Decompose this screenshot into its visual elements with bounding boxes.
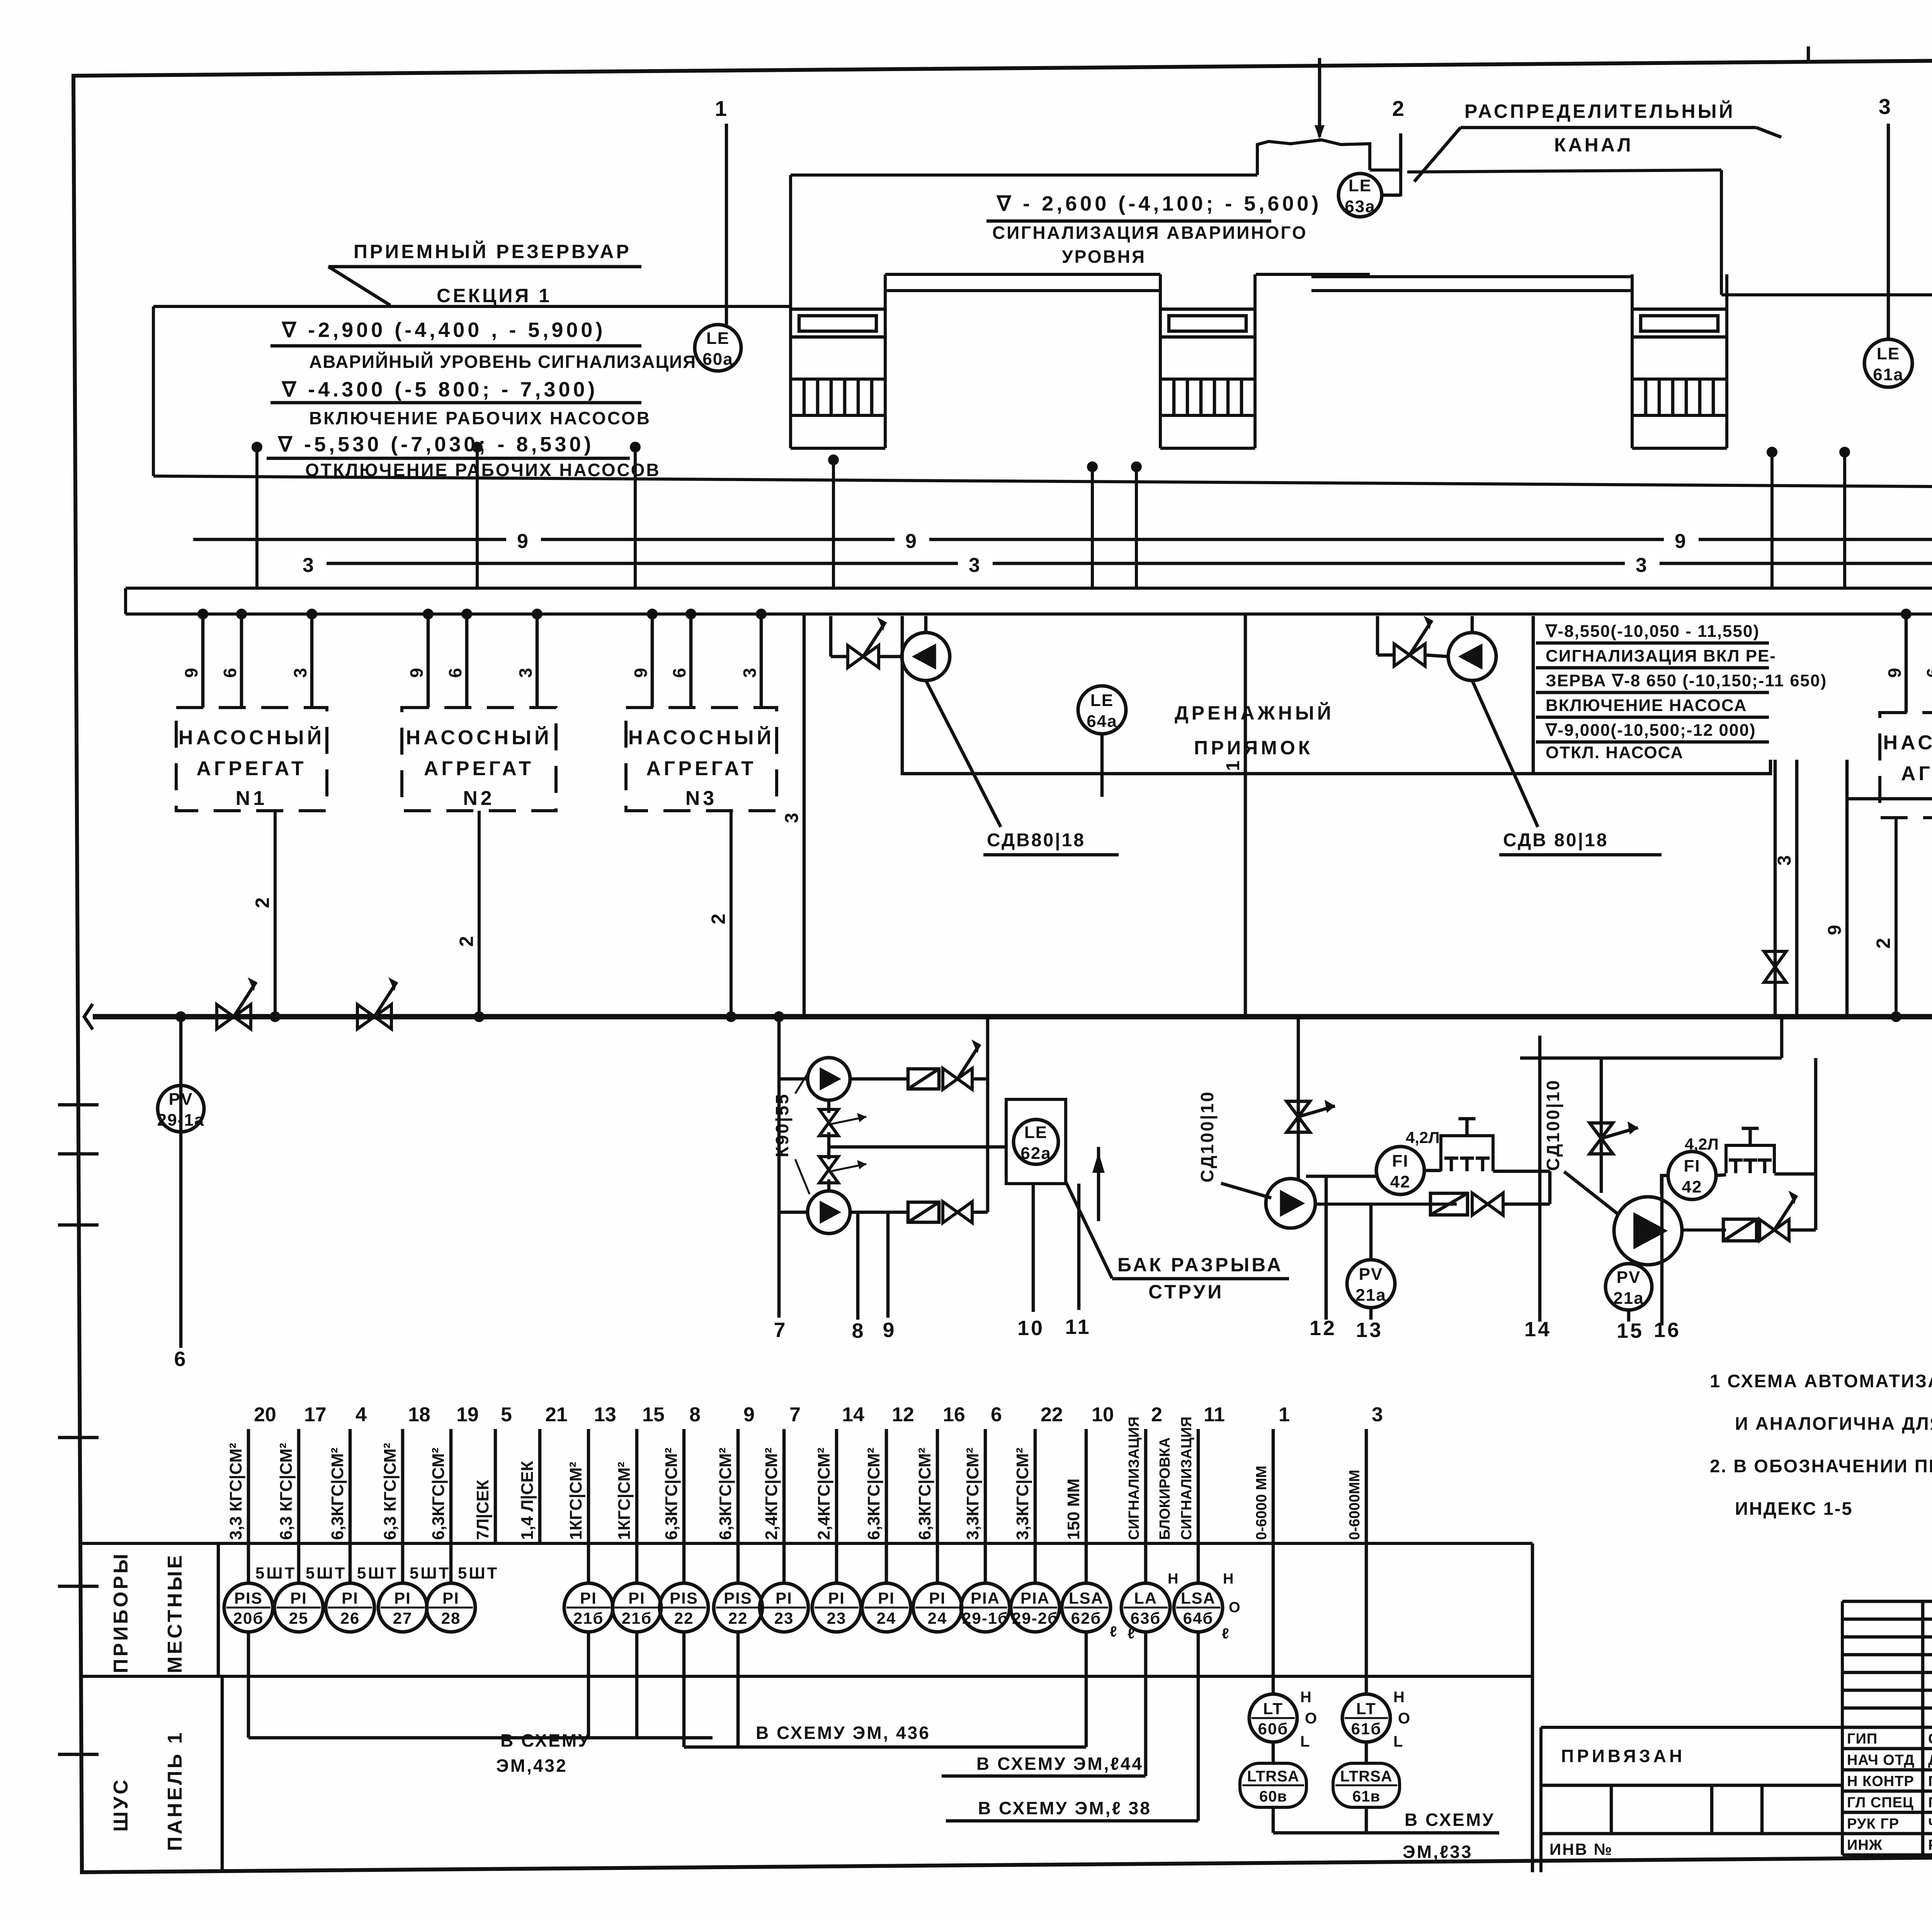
svg-text:63б: 63б: [1131, 1609, 1161, 1627]
svg-text:13: 13: [1356, 1318, 1383, 1342]
svg-text:LE: LE: [1024, 1123, 1048, 1142]
svg-text:21б: 21б: [573, 1609, 604, 1627]
svg-text:LSA: LSA: [1181, 1589, 1216, 1607]
svg-text:PI: PI: [342, 1589, 359, 1607]
svg-text:LE: LE: [1349, 176, 1372, 195]
svg-text:ПРИЯМОК: ПРИЯМОК: [1194, 737, 1313, 759]
svg-text:20: 20: [254, 1404, 276, 1426]
svg-text:АГРЕГАТ: АГРЕГАТ: [424, 757, 534, 780]
svg-text:LT: LT: [1356, 1700, 1376, 1718]
svg-text:6,3КГС|СМ²: 6,3КГС|СМ²: [864, 1448, 884, 1540]
svg-text:2: 2: [456, 934, 477, 947]
svg-text:PIS: PIS: [234, 1589, 263, 1607]
svg-text:61a: 61a: [1873, 365, 1903, 384]
svg-text:12: 12: [892, 1404, 914, 1426]
svg-text:3: 3: [740, 666, 760, 678]
svg-text:PI: PI: [290, 1589, 307, 1607]
svg-text:ИНВ №: ИНВ №: [1549, 1840, 1613, 1858]
svg-text:O: O: [1305, 1710, 1319, 1727]
svg-text:14: 14: [1524, 1318, 1551, 1341]
svg-text:НАСОСНЫЙ: НАСОСНЫЙ: [628, 726, 774, 749]
svg-text:СЛЕГИН: СЛЕГИН: [1928, 1731, 1932, 1747]
svg-text:БАК РАЗРЫВА: БАК РАЗРЫВА: [1117, 1254, 1283, 1276]
svg-text:ЭМ,432: ЭМ,432: [496, 1756, 568, 1776]
svg-text:БЛОКИРОВКА: БЛОКИРОВКА: [1157, 1437, 1173, 1540]
svg-text:PI: PI: [878, 1589, 895, 1607]
svg-text:N1: N1: [236, 787, 267, 810]
svg-text:PI: PI: [442, 1589, 459, 1607]
svg-text:L: L: [1300, 1733, 1311, 1750]
svg-text:23: 23: [774, 1609, 794, 1627]
svg-text:НАСОСНЫЙ: НАСОСНЫЙ: [406, 726, 552, 749]
svg-text:PV: PV: [1617, 1268, 1641, 1287]
svg-text:1КГС|СМ²: 1КГС|СМ²: [566, 1462, 586, 1540]
svg-text:N3: N3: [685, 787, 717, 810]
svg-text:FI: FI: [1684, 1157, 1700, 1176]
svg-text:4: 4: [355, 1404, 367, 1426]
svg-text:ГИП: ГИП: [1847, 1731, 1878, 1747]
svg-text:24: 24: [877, 1609, 896, 1627]
svg-text:УРОВНЯ: УРОВНЯ: [1062, 247, 1146, 267]
svg-text:8: 8: [689, 1404, 701, 1426]
svg-text:6: 6: [991, 1404, 1002, 1426]
svg-text:ШУС: ШУС: [110, 1778, 132, 1832]
svg-text:9: 9: [1825, 923, 1845, 935]
svg-text:64a: 64a: [1087, 712, 1117, 731]
svg-text:2: 2: [1151, 1404, 1162, 1426]
svg-text:3: 3: [290, 666, 310, 678]
svg-text:16: 16: [943, 1404, 965, 1426]
svg-text:60б: 60б: [1258, 1720, 1289, 1738]
svg-text:2: 2: [707, 912, 729, 924]
svg-text:6,3КГС|СМ²: 6,3КГС|СМ²: [328, 1448, 347, 1540]
svg-text:2,4КГС|СМ²: 2,4КГС|СМ²: [815, 1448, 834, 1540]
svg-text:9: 9: [517, 530, 530, 553]
svg-text:6: 6: [445, 666, 465, 678]
svg-text:3: 3: [1879, 94, 1893, 119]
svg-text:∇-9,000(-10,500;-12 000): ∇-9,000(-10,500;-12 000): [1545, 721, 1756, 740]
svg-text:ℓ: ℓ: [1128, 1626, 1137, 1642]
svg-text:3: 3: [969, 554, 982, 577]
svg-text:0-6000ММ: 0-6000ММ: [1347, 1470, 1363, 1540]
svg-text:В СХЕМУ ЭМ, 436: В СХЕМУ ЭМ, 436: [756, 1723, 930, 1743]
svg-text:∇ -4.300 (-5 800; - 7,300): ∇ -4.300 (-5 800; - 7,300): [281, 378, 598, 401]
svg-text:11: 11: [1065, 1315, 1091, 1339]
svg-text:LTRSA: LTRSA: [1340, 1768, 1392, 1785]
svg-text:3: 3: [303, 554, 316, 577]
svg-text:ЧУБОВА: ЧУБОВА: [1928, 1816, 1932, 1832]
svg-text:H: H: [1300, 1689, 1313, 1706]
svg-text:10: 10: [1092, 1404, 1114, 1426]
svg-text:61в: 61в: [1352, 1788, 1380, 1805]
svg-text:22: 22: [1041, 1404, 1063, 1426]
svg-text:60a: 60a: [702, 350, 733, 369]
svg-text:5ШТ: 5ШТ: [410, 1564, 451, 1582]
svg-text:PI: PI: [628, 1589, 645, 1607]
svg-text:СИГНАЛИЗАЦИЯ: СИГНАЛИЗАЦИЯ: [1126, 1417, 1142, 1540]
svg-text:ПРИЕМНЫЙ РЕЗЕРВУАР: ПРИЕМНЫЙ РЕЗЕРВУАР: [354, 240, 631, 262]
svg-text:6,3КГС|СМ²: 6,3КГС|СМ²: [429, 1448, 448, 1540]
svg-text:61б: 61б: [1351, 1720, 1382, 1738]
svg-text:СЕКЦИЯ 1: СЕКЦИЯ 1: [437, 285, 552, 306]
svg-text:21a: 21a: [1355, 1286, 1386, 1305]
svg-text:L: L: [1393, 1733, 1405, 1750]
svg-text:Н КОНТР: Н КОНТР: [1847, 1773, 1914, 1790]
svg-text:PIA: PIA: [1020, 1589, 1050, 1607]
svg-text:ВКЛЮЧЕНИЕ РАБОЧИХ НАСОСОВ: ВКЛЮЧЕНИЕ РАБОЧИХ НАСОСОВ: [309, 408, 651, 428]
svg-text:14: 14: [842, 1404, 864, 1426]
svg-text:АГРЕГАТ: АГРЕГАТ: [646, 757, 756, 780]
svg-text:LTRSA: LTRSA: [1247, 1768, 1299, 1785]
svg-text:9: 9: [181, 666, 201, 678]
svg-text:3: 3: [1774, 854, 1795, 866]
svg-text:21б: 21б: [622, 1609, 652, 1627]
svg-text:O: O: [1229, 1599, 1242, 1616]
svg-text:22: 22: [674, 1609, 694, 1627]
svg-text:В СХЕМУ: В СХЕМУ: [1405, 1810, 1495, 1830]
svg-text:19: 19: [456, 1404, 479, 1426]
svg-text:22: 22: [728, 1609, 748, 1627]
svg-text:2. В ОБОЗНАЧЕНИИ ПЕРЕД ПОЗИЦИЕ: 2. В ОБОЗНАЧЕНИИ ПЕРЕД ПОЗИЦИЕЙ ПРИБОРОВ…: [1710, 1456, 1932, 1476]
svg-text:9: 9: [631, 666, 651, 678]
svg-text:∇-8,550(-10,050 - 11,550): ∇-8,550(-10,050 - 11,550): [1545, 622, 1760, 641]
svg-text:ПОПОВ: ПОПОВ: [1928, 1795, 1932, 1811]
svg-text:H: H: [1168, 1571, 1180, 1587]
svg-text:12: 12: [1310, 1317, 1337, 1340]
svg-text:29-2б: 29-2б: [1012, 1609, 1058, 1627]
svg-text:АГРЕГАТ: АГРЕГАТ: [1901, 762, 1932, 785]
svg-text:НАЧ ОТД: НАЧ ОТД: [1847, 1752, 1915, 1768]
svg-text:3: 3: [515, 666, 536, 678]
svg-text:ИНЖ: ИНЖ: [1847, 1837, 1883, 1853]
svg-text:ВКЛЮЧЕНИЕ НАСОСА: ВКЛЮЧЕНИЕ НАСОСА: [1546, 696, 1747, 715]
svg-text:PI: PI: [776, 1589, 793, 1607]
svg-text:28: 28: [441, 1609, 461, 1627]
svg-text:FI: FI: [1392, 1152, 1408, 1170]
svg-text:11: 11: [1204, 1404, 1225, 1426]
svg-text:18: 18: [408, 1404, 430, 1426]
svg-text:В СХЕМУ ЭМ,ℓ44: В СХЕМУ ЭМ,ℓ44: [976, 1754, 1143, 1774]
svg-text:23: 23: [827, 1609, 847, 1627]
svg-text:РУК ГР: РУК ГР: [1847, 1816, 1899, 1832]
svg-text:15: 15: [1617, 1319, 1644, 1342]
svg-text:N2: N2: [463, 787, 495, 810]
svg-text:6,3КГС|СМ²: 6,3КГС|СМ²: [915, 1448, 935, 1540]
svg-text:ДОЛОТОВ: ДОЛОТОВ: [1928, 1752, 1932, 1768]
svg-text:PI: PI: [394, 1589, 411, 1607]
svg-text:20б: 20б: [233, 1609, 264, 1627]
svg-text:PIS: PIS: [724, 1589, 752, 1607]
svg-text:1: 1: [1223, 759, 1243, 771]
svg-text:ГЛ СПЕЦ: ГЛ СПЕЦ: [1847, 1795, 1914, 1811]
svg-text:4,2Л: 4,2Л: [1685, 1135, 1719, 1153]
svg-text:РАСПРЕДЕЛИТЕЛЬНЫЙ: РАСПРЕДЕЛИТЕЛЬНЫЙ: [1464, 100, 1735, 122]
svg-text:СДВ 80|18: СДВ 80|18: [1503, 830, 1608, 851]
svg-text:СД100|10: СД100|10: [1543, 1079, 1563, 1171]
svg-text:27: 27: [393, 1609, 413, 1627]
svg-text:H: H: [1393, 1689, 1406, 1706]
svg-text:3: 3: [1372, 1404, 1383, 1426]
svg-text:ОТКЛЮЧЕНИЕ РАБОЧИХ НАСОСОВ: ОТКЛЮЧЕНИЕ РАБОЧИХ НАСОСОВ: [305, 460, 661, 480]
svg-text:25: 25: [289, 1609, 309, 1627]
svg-text:И АНАЛОГИЧНА ДЛЯ НАСОСНЫХ А: И АНАЛОГИЧНА ДЛЯ НАСОСНЫХ АГРЕГАТОВ №1÷№…: [1735, 1413, 1932, 1434]
svg-text:ЗЕРВА ∇-8 650 (-10,150;-11 65: ЗЕРВА ∇-8 650 (-10,150;-11 650): [1546, 671, 1827, 690]
svg-text:63a: 63a: [1345, 197, 1375, 216]
svg-text:6: 6: [669, 666, 689, 678]
svg-text:5ШТ: 5ШТ: [458, 1564, 499, 1582]
svg-text:3,3КГС|СМ²: 3,3КГС|СМ²: [1013, 1448, 1032, 1540]
svg-text:13: 13: [594, 1404, 616, 1426]
svg-text:16: 16: [1654, 1318, 1681, 1342]
svg-text:5ШТ: 5ШТ: [357, 1564, 398, 1582]
svg-text:62a: 62a: [1020, 1144, 1051, 1163]
svg-text:H: H: [1223, 1571, 1235, 1587]
svg-text:СИГНАЛИЗАЦИЯ: СИГНАЛИЗАЦИЯ: [1179, 1417, 1195, 1540]
svg-text:6,3КГС|СМ²: 6,3КГС|СМ²: [662, 1448, 681, 1540]
svg-text:10: 10: [1017, 1317, 1044, 1340]
svg-text:ЭМ,ℓ33: ЭМ,ℓ33: [1403, 1842, 1473, 1862]
svg-text:∇ -5,530 (-7,030; - 8,530): ∇ -5,530 (-7,030; - 8,530): [277, 433, 594, 456]
svg-text:LE: LE: [706, 329, 730, 348]
svg-text:PI: PI: [929, 1589, 946, 1607]
svg-text:21: 21: [545, 1404, 568, 1426]
svg-text:ПРИБОРЫ: ПРИБОРЫ: [110, 1552, 132, 1673]
svg-text:17: 17: [304, 1404, 327, 1426]
svg-text:LE: LE: [1090, 691, 1114, 710]
svg-text:15: 15: [642, 1404, 665, 1426]
svg-text:60в: 60в: [1259, 1788, 1287, 1805]
svg-text:АВАРИЙНЫЙ УРОВЕНЬ СИГНАЛИЗАЦИЯ: АВАРИЙНЫЙ УРОВЕНЬ СИГНАЛИЗАЦИЯ: [309, 352, 696, 372]
svg-text:9: 9: [883, 1318, 896, 1342]
svg-text:3,3КГС|СМ²: 3,3КГС|СМ²: [963, 1448, 983, 1540]
svg-text:7: 7: [789, 1404, 801, 1426]
svg-text:СТРУИ: СТРУИ: [1148, 1281, 1224, 1303]
svg-text:1: 1: [1279, 1404, 1290, 1426]
svg-text:6: 6: [220, 666, 240, 678]
svg-text:24: 24: [928, 1609, 947, 1627]
svg-text:ПАНЕЛЬ 1: ПАНЕЛЬ 1: [164, 1730, 186, 1851]
svg-text:PI: PI: [580, 1589, 597, 1607]
svg-text:5: 5: [501, 1404, 512, 1426]
svg-text:К90|55: К90|55: [772, 1093, 792, 1157]
svg-text:КАНАЛ: КАНАЛ: [1554, 134, 1633, 156]
svg-text:1: 1: [715, 96, 729, 121]
svg-text:ИНДЕКС 1-5: ИНДЕКС 1-5: [1735, 1498, 1853, 1519]
svg-text:ОТКЛ. НАСОСА: ОТКЛ. НАСОСА: [1546, 743, 1684, 762]
svg-text:В СХЕМУ: В СХЕМУ: [500, 1730, 591, 1751]
svg-text:4,2Л: 4,2Л: [1406, 1128, 1440, 1147]
svg-text:2: 2: [1392, 96, 1406, 121]
svg-text:2: 2: [1872, 936, 1894, 949]
svg-text:∇ -2,900 (-4,400 , - 5,900): ∇ -2,900 (-4,400 , - 5,900): [281, 318, 605, 342]
svg-text:ℓ: ℓ: [1110, 1624, 1119, 1640]
svg-text:ПРИВЯЗАН: ПРИВЯЗАН: [1561, 1746, 1685, 1766]
svg-text:26: 26: [340, 1609, 360, 1627]
svg-text:9: 9: [1675, 530, 1688, 553]
svg-text:9: 9: [905, 530, 918, 553]
svg-text:1,4 Л|СЕК: 1,4 Л|СЕК: [518, 1461, 537, 1540]
svg-text:НАСОСНЫЙ: НАСОСНЫЙ: [179, 726, 325, 749]
svg-text:LA: LA: [1134, 1589, 1157, 1607]
svg-text:LSA: LSA: [1069, 1589, 1104, 1607]
svg-text:2: 2: [252, 896, 273, 908]
svg-text:LT: LT: [1263, 1700, 1283, 1718]
svg-text:9: 9: [743, 1404, 755, 1426]
svg-text:LE: LE: [1877, 344, 1900, 363]
svg-text:6,3 КГС|СМ²: 6,3 КГС|СМ²: [381, 1443, 400, 1540]
svg-text:АГРЕГАТ: АГРЕГАТ: [196, 757, 306, 780]
svg-text:6: 6: [1923, 666, 1932, 678]
svg-text:∇ - 2,600 (-4,100; - 5,600): ∇ - 2,600 (-4,100; - 5,600): [996, 192, 1321, 215]
svg-text:6: 6: [174, 1347, 187, 1371]
svg-text:2,4КГС|СМ²: 2,4КГС|СМ²: [762, 1448, 781, 1540]
svg-text:9: 9: [1884, 666, 1905, 678]
svg-text:29-1б: 29-1б: [962, 1609, 1009, 1627]
svg-text:1КГС|СМ²: 1КГС|СМ²: [615, 1462, 634, 1540]
svg-text:PI: PI: [828, 1589, 845, 1607]
svg-text:PIA: PIA: [971, 1589, 1000, 1607]
svg-text:PV: PV: [1359, 1265, 1383, 1284]
svg-text:7: 7: [774, 1318, 787, 1342]
svg-text:21a: 21a: [1613, 1289, 1644, 1308]
svg-text:8: 8: [852, 1319, 865, 1342]
svg-text:1 СХЕМА АВТОМАТИЗАЦИИ ВЫПОЛН: 1 СХЕМА АВТОМАТИЗАЦИИ ВЫПОЛНЕНА ДЛЯ НАСО…: [1710, 1371, 1932, 1391]
svg-text:7Л|СЕК: 7Л|СЕК: [473, 1480, 493, 1540]
svg-text:НАСОСНЫЙ: НАСОСНЫЙ: [1883, 731, 1932, 754]
svg-text:PV: PV: [169, 1090, 193, 1109]
svg-text:6,3 КГС|СМ²: 6,3 КГС|СМ²: [277, 1443, 296, 1540]
svg-text:42: 42: [1682, 1177, 1702, 1196]
svg-text:СИГНАЛИЗАЦИЯ ВКЛ РЕ-: СИГНАЛИЗАЦИЯ ВКЛ РЕ-: [1546, 646, 1776, 665]
svg-text:СДВ80|18: СДВ80|18: [987, 830, 1085, 851]
svg-text:РАДОВИЦКАЯ: РАДОВИЦКАЯ: [1928, 1837, 1932, 1853]
svg-text:6,3КГС|СМ²: 6,3КГС|СМ²: [716, 1448, 735, 1540]
svg-text:PIS: PIS: [670, 1589, 698, 1607]
svg-text:9: 9: [406, 666, 427, 678]
svg-text:СИГНАЛИЗАЦИЯ АВАРИИНОГО: СИГНАЛИЗАЦИЯ АВАРИИНОГО: [992, 223, 1308, 243]
svg-text:42: 42: [1390, 1172, 1411, 1191]
svg-text:150 ММ: 150 ММ: [1064, 1478, 1083, 1540]
svg-text:ℓ: ℓ: [1222, 1626, 1231, 1642]
svg-text:5ШТ: 5ШТ: [255, 1564, 296, 1582]
svg-text:МЕСТНЫЕ: МЕСТНЫЕ: [164, 1553, 186, 1673]
svg-text:3,3 КГС|СМ²: 3,3 КГС|СМ²: [226, 1443, 246, 1540]
svg-text:3: 3: [1636, 554, 1649, 577]
svg-text:O: O: [1398, 1710, 1412, 1727]
svg-text:ПОПОВ: ПОПОВ: [1928, 1773, 1932, 1790]
svg-text:64б: 64б: [1183, 1609, 1214, 1627]
svg-text:0-6000 ММ: 0-6000 ММ: [1253, 1466, 1270, 1540]
svg-text:В СХЕМУ ЭМ,ℓ 38: В СХЕМУ ЭМ,ℓ 38: [978, 1798, 1151, 1818]
svg-text:СД100|10: СД100|10: [1197, 1090, 1217, 1182]
svg-text:3: 3: [782, 811, 802, 823]
svg-text:5ШТ: 5ШТ: [306, 1564, 347, 1582]
svg-text:ДРЕНАЖНЫЙ: ДРЕНАЖНЫЙ: [1175, 702, 1334, 724]
svg-text:29-1a: 29-1a: [157, 1111, 205, 1130]
svg-text:62б: 62б: [1071, 1609, 1102, 1627]
